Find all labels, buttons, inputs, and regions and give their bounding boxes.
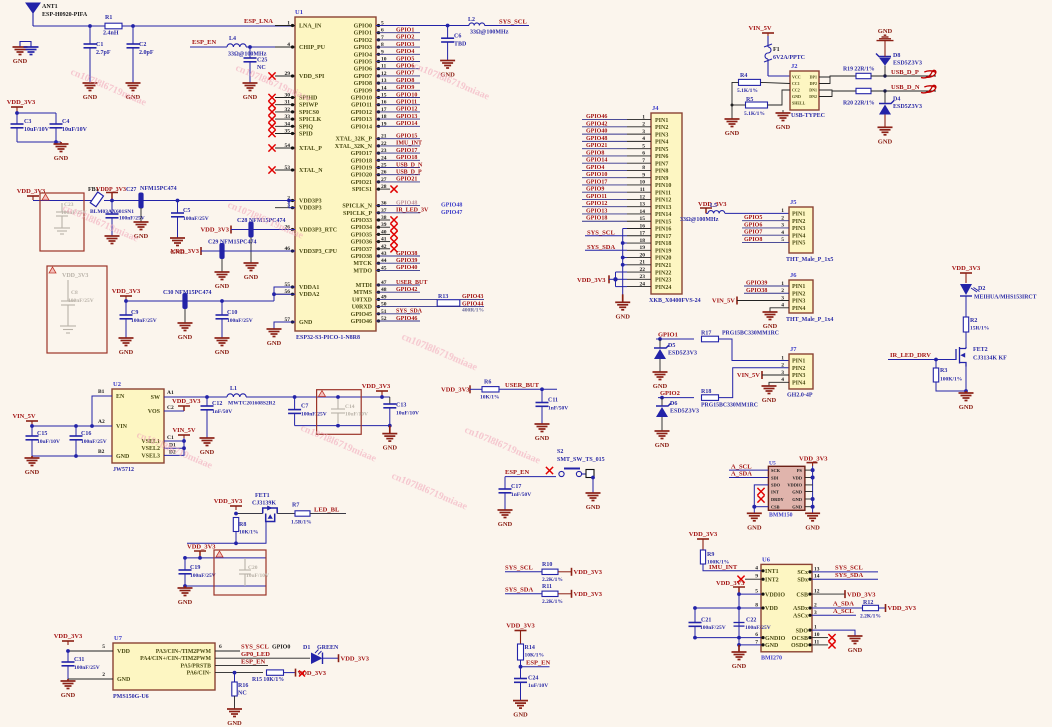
svg-text:SPICLK_P: SPICLK_P: [343, 211, 372, 217]
svg-text:C11: C11: [548, 398, 558, 404]
svg-text:U7: U7: [114, 635, 123, 642]
ground below C30: [184, 309, 186, 323]
capacitor C12: [206, 397, 208, 406]
svg-text:VDD_SPI: VDD_SPI: [299, 74, 325, 80]
junction C12: [205, 395, 209, 399]
svg-text:20: 20: [640, 252, 646, 258]
svg-text:2.4nH: 2.4nH: [103, 31, 119, 37]
svg-text:GPIO0: GPIO0: [354, 24, 372, 30]
wire R17 to J7 pin1: [719, 339, 790, 361]
svg-text:GPIO2: GPIO2: [660, 390, 680, 397]
svg-text:GPIO36: GPIO36: [351, 240, 372, 246]
svg-text:GPIO11: GPIO11: [586, 194, 607, 200]
svg-text:VDD: VDD: [792, 475, 802, 480]
svg-text:VDDA2: VDDA2: [299, 292, 319, 298]
power flag VDD_3V3 at D2: [960, 273, 972, 277]
capacitor C27: [111, 201, 113, 215]
net SYS_SCL at U6: [812, 571, 878, 573]
svg-text:C8: C8: [71, 290, 78, 296]
resistor R10: [542, 569, 558, 574]
svg-text:C4: C4: [62, 119, 69, 125]
capacitor C4: [55, 113, 57, 124]
svg-text:IMU_INT: IMU_INT: [396, 141, 422, 147]
wire ESP_EN at R14: [520, 660, 522, 679]
power flag VDD_3V3 at C28: [230, 226, 232, 234]
resistor R4: [739, 79, 761, 85]
ground below C10: [215, 338, 230, 346]
svg-text:GPIO17: GPIO17: [396, 148, 417, 154]
wire R2 to FET2: [965, 332, 967, 347]
LED D2 infrared: [965, 277, 967, 283]
svg-text:C29 NFM15PC474: C29 NFM15PC474: [208, 240, 257, 246]
ground below C1: [83, 83, 98, 91]
NTC box around C23: [40, 193, 84, 251]
svg-text:VDDA1: VDDA1: [299, 285, 319, 291]
svg-text:R9: R9: [707, 552, 714, 558]
svg-text:100nF/25V: 100nF/25V: [745, 625, 771, 631]
svg-text:GPIO2: GPIO2: [396, 35, 414, 41]
svg-text:PIN1: PIN1: [792, 359, 805, 365]
svg-text:C25: C25: [257, 58, 267, 64]
power flag VDD_3V3 at C3: [11, 107, 23, 112]
ground below C12: [200, 438, 215, 446]
unused-pin X at OSDO: [812, 644, 828, 646]
ground below C27: [105, 236, 120, 244]
power flag VDD_3V3 at R14: [515, 631, 527, 635]
svg-text:GPIO47: GPIO47: [441, 210, 462, 216]
svg-text:SPIQ: SPIQ: [299, 124, 313, 130]
svg-text:DN2: DN2: [809, 94, 817, 99]
svg-text:GND: GND: [25, 469, 40, 476]
svg-text:PIN10: PIN10: [655, 183, 671, 189]
svg-text:GPIO7: GPIO7: [744, 230, 762, 236]
unused-pin X at S2: [546, 467, 553, 474]
svg-text:S2: S2: [557, 449, 563, 455]
svg-text:VDD: VDD: [117, 649, 131, 655]
svg-text:PIN21: PIN21: [655, 263, 671, 269]
wire VDDA rail: [126, 300, 274, 302]
svg-text:GPIO18: GPIO18: [586, 216, 607, 222]
svg-text:R4: R4: [740, 73, 747, 79]
wire D2 to R2: [965, 296, 967, 317]
svg-text:GPIO9: GPIO9: [586, 187, 604, 193]
junction at C2: [131, 24, 135, 28]
svg-text:MWTC201608S2R2: MWTC201608S2R2: [228, 401, 276, 407]
svg-text:12: 12: [640, 194, 646, 200]
ground below D6: [655, 431, 670, 439]
svg-text:GPIO20: GPIO20: [351, 173, 372, 179]
svg-text:VDD_3V3: VDD_3V3: [799, 455, 828, 462]
antenna ANT1: [26, 3, 40, 26]
resistor R15: [267, 670, 284, 675]
svg-text:10: 10: [640, 180, 646, 186]
svg-text:U5: U5: [769, 460, 776, 466]
junction C11: [540, 387, 544, 391]
svg-text:IMU_INT: IMU_INT: [709, 564, 738, 571]
ground below C24: [513, 701, 528, 709]
U1 left pins: [275, 25, 295, 27]
output bottom rail: [295, 425, 390, 427]
capacitor C15: [31, 426, 33, 436]
capacitor C1: [89, 26, 91, 44]
svg-text:F1: F1: [773, 47, 780, 53]
svg-text:A1: A1: [167, 390, 174, 396]
svg-text:GPIO48: GPIO48: [586, 136, 607, 142]
svg-text:SMT_SW_TS_015: SMT_SW_TS_015: [557, 457, 605, 463]
power flag VIN_5V at J7: [761, 371, 763, 379]
ground below FET2: [959, 391, 974, 401]
svg-text:16: 16: [640, 223, 646, 229]
wire VIN rail: [32, 425, 112, 427]
svg-text:10uF/10V: 10uF/10V: [246, 573, 269, 579]
svg-text:SCK: SCK: [771, 468, 781, 473]
wire IR_LED_DRV to gate: [888, 359, 956, 361]
svg-text:GPIO14: GPIO14: [351, 124, 372, 130]
svg-text:GND: GND: [959, 404, 974, 411]
inductor L1: [227, 394, 246, 397]
svg-text:1: 1: [781, 355, 784, 361]
svg-text:PIN13: PIN13: [655, 205, 671, 211]
svg-text:A_SDA: A_SDA: [731, 470, 752, 477]
junction at C5: [176, 199, 180, 203]
svg-text:21: 21: [640, 260, 646, 266]
svg-text:VDD_3V3: VDD_3V3: [716, 580, 745, 587]
svg-text:GPIO48: GPIO48: [396, 200, 417, 206]
connector J5 body: [789, 207, 813, 253]
svg-text:GND: GND: [13, 58, 28, 65]
svg-text:GPIO46: GPIO46: [396, 316, 417, 322]
capacitor C11: [541, 389, 543, 402]
power flag VDD_3V3 R11: [571, 590, 573, 598]
svg-text:C17: C17: [511, 484, 521, 490]
svg-text:SPICLK_N: SPICLK_N: [342, 204, 372, 210]
svg-text:CSB: CSB: [771, 505, 780, 510]
ground below C5: [170, 238, 185, 246]
svg-text:DRDY: DRDY: [771, 497, 785, 502]
ground below C11: [535, 424, 550, 432]
wire R9 to INT1 / IMU_INT: [703, 564, 761, 571]
power flag VIN_5V at F1: [762, 33, 774, 36]
diode D5 ESD5Z3V3: [658, 337, 662, 341]
svg-text:PIN2: PIN2: [792, 219, 805, 225]
svg-text:ESP_EN: ESP_EN: [192, 39, 217, 46]
svg-text:D6: D6: [670, 401, 677, 407]
svg-text:MTCK: MTCK: [353, 261, 372, 267]
svg-text:10K/1%: 10K/1%: [480, 395, 500, 401]
power flag VDD_3V3 at C29: [200, 247, 202, 255]
svg-text:GND: GND: [178, 334, 193, 341]
svg-text:6V2A/PPTC: 6V2A/PPTC: [773, 55, 805, 61]
svg-text:GND: GND: [878, 138, 893, 145]
svg-text:R10: R10: [542, 562, 552, 568]
svg-text:GND: GND: [765, 643, 779, 649]
svg-text:VDD_3V3: VDD_3V3: [574, 591, 603, 598]
svg-text:GND: GND: [615, 313, 630, 320]
svg-text:PIN3: PIN3: [792, 226, 805, 232]
svg-text:DP1: DP1: [810, 75, 817, 80]
svg-text:GPIO6: GPIO6: [396, 64, 414, 70]
svg-text:6: 6: [219, 644, 222, 650]
U5 right rail: [812, 466, 814, 513]
resistor R18: [702, 395, 719, 401]
differential pair marker N: [921, 85, 936, 93]
ground below NFM filter: [140, 208, 142, 222]
svg-text:17: 17: [640, 231, 646, 237]
wire C19 top rail: [185, 557, 266, 559]
svg-text:C2: C2: [167, 405, 174, 411]
power flag VIN_5V: [26, 421, 38, 426]
svg-text:C31: C31: [74, 657, 84, 663]
svg-text:MTDO: MTDO: [353, 268, 372, 274]
svg-text:VDD_3V3: VDD_3V3: [952, 265, 981, 272]
svg-text:5.1K/1%: 5.1K/1%: [737, 88, 758, 94]
svg-text:1: 1: [781, 208, 784, 214]
IC U1 ESP32-S3-PICO-1-N8R8 body: [295, 17, 376, 331]
svg-text:GPIO17: GPIO17: [586, 179, 607, 185]
svg-text:GPIO21: GPIO21: [396, 177, 417, 183]
svg-text:D2: D2: [978, 286, 985, 292]
diode D6 ESD5Z3V3: [660, 396, 664, 400]
svg-text:33Ω@100MHz: 33Ω@100MHz: [470, 30, 509, 36]
wire R18 to J7 pin2: [719, 368, 790, 398]
svg-text:VDD3P3: VDD3P3: [299, 199, 322, 205]
svg-text:GPIO8: GPIO8: [744, 237, 762, 243]
capacitor C5: [177, 201, 179, 214]
wire GPIO44 pin 50: [376, 306, 484, 308]
svg-text:GND: GND: [513, 712, 528, 719]
svg-text:GPIO48: GPIO48: [441, 203, 462, 209]
svg-text:VDD3P3_CPU: VDD3P3_CPU: [299, 249, 338, 255]
wire GPIO0 to L2: [376, 25, 469, 27]
svg-text:GPIO39: GPIO39: [396, 258, 417, 264]
svg-text:VDD_3V3: VDD_3V3: [62, 273, 88, 279]
svg-text:VOS: VOS: [148, 409, 161, 415]
svg-text:8: 8: [642, 165, 645, 171]
svg-text:VDD_3V3: VDD_3V3: [847, 591, 876, 598]
svg-text:SPICS0: SPICS0: [299, 110, 319, 116]
svg-text:NFM15PC474: NFM15PC474: [140, 186, 177, 192]
svg-text:1nF/50V: 1nF/50V: [511, 492, 531, 498]
resistor R7: [277, 513, 295, 515]
svg-text:J7: J7: [790, 346, 797, 353]
svg-text:SYS_SCL: SYS_SCL: [835, 565, 863, 572]
svg-text:GPIO3: GPIO3: [354, 45, 372, 51]
svg-text:4: 4: [642, 136, 645, 142]
ground below C13: [382, 426, 397, 442]
svg-text:PIN6: PIN6: [655, 154, 668, 160]
svg-text:GPIO4: GPIO4: [396, 49, 414, 55]
net A_SDA at U6: [812, 607, 862, 609]
svg-text:100nF/25V: 100nF/25V: [74, 665, 100, 671]
resistor R1: [105, 23, 122, 29]
power flag VDD_3V3 at FET1: [230, 506, 242, 510]
svg-text:100nF/25V: 100nF/25V: [81, 439, 107, 445]
svg-text:JW5712: JW5712: [113, 467, 134, 473]
wire VOS: [164, 410, 184, 412]
svg-text:SYS_SDA: SYS_SDA: [835, 572, 863, 579]
svg-text:L2: L2: [468, 17, 475, 23]
wire U2 GND rail: [32, 455, 112, 457]
wire GPIO2 to R18: [658, 397, 694, 399]
svg-text:CC2: CC2: [792, 88, 800, 93]
svg-text:C21: C21: [701, 618, 711, 624]
svg-text:GPIO10: GPIO10: [396, 92, 417, 98]
svg-text:USB-TYPEC: USB-TYPEC: [791, 113, 825, 119]
svg-text:VDD_3V3: VDD_3V3: [441, 387, 470, 394]
svg-text:R19 22R/1%: R19 22R/1%: [843, 67, 875, 73]
svg-text:29: 29: [285, 71, 291, 77]
svg-text:CJ3134K KF: CJ3134K KF: [973, 356, 1007, 362]
wire VDD_3V3 to pin2: [33, 200, 93, 202]
svg-text:J4: J4: [652, 105, 659, 112]
svg-text:18: 18: [640, 238, 646, 244]
junction C7: [293, 395, 297, 399]
svg-text:VDD_3V3: VDD_3V3: [17, 188, 46, 195]
wire U1 GND pin: [274, 322, 295, 329]
ground below U1 GND pin: [267, 329, 282, 337]
ground below J2: [782, 110, 784, 113]
svg-text:VDD3P3: VDD3P3: [299, 206, 322, 212]
svg-text:PIN2: PIN2: [655, 125, 668, 131]
svg-text:VDDIO: VDDIO: [787, 483, 802, 488]
svg-text:J2: J2: [791, 63, 798, 70]
svg-text:R20 22R/1%: R20 22R/1%: [843, 101, 875, 107]
svg-text:GH2.0-4P: GH2.0-4P: [787, 393, 813, 399]
ground below R4 R5: [725, 119, 740, 127]
power flag VDD_3V3 at R12: [885, 604, 887, 612]
svg-text:GPIO37: GPIO37: [351, 247, 372, 253]
svg-text:SDx: SDx: [797, 577, 808, 583]
wire R4 R5 to ground: [732, 82, 739, 119]
svg-text:10uF/10V: 10uF/10V: [62, 127, 88, 133]
svg-text:GND: GND: [54, 155, 69, 162]
svg-text:CHIP_PU: CHIP_PU: [299, 45, 326, 51]
U7 GND pin wire: [68, 678, 113, 680]
svg-text:LED_BL: LED_BL: [314, 507, 340, 514]
wire output right: [380, 395, 384, 399]
capacitor C7: [294, 397, 296, 410]
svg-text:1nF/50V: 1nF/50V: [212, 409, 232, 415]
svg-text:MEIHUA/MHS153IRCT: MEIHUA/MHS153IRCT: [974, 295, 1037, 301]
svg-text:ESD5Z3V3: ESD5Z3V3: [893, 104, 922, 110]
svg-text:R16: R16: [238, 683, 248, 689]
svg-text:ESP_EN: ESP_EN: [505, 469, 530, 476]
svg-text:INT1: INT1: [765, 569, 779, 575]
svg-text:PIN2: PIN2: [792, 366, 805, 372]
U5 SDO CSB wires: [754, 485, 768, 513]
svg-text:3: 3: [642, 129, 645, 135]
svg-text:XTAL_32K_N: XTAL_32K_N: [335, 144, 373, 150]
svg-text:THT_Male_P_1x5: THT_Male_P_1x5: [786, 257, 833, 263]
svg-text:SHELL: SHELL: [792, 101, 806, 106]
svg-text:GPIO46: GPIO46: [351, 319, 372, 325]
svg-text:PIN11: PIN11: [655, 190, 671, 196]
capacitor C21: [694, 608, 696, 623]
wire ESP_EN to CHIP_PU: [190, 46, 227, 48]
power flag VIN_5V at J6: [736, 297, 738, 305]
svg-text:C7: C7: [301, 404, 308, 410]
svg-text:GPIO14: GPIO14: [586, 158, 607, 164]
U7 VDD pin wire: [68, 650, 113, 652]
svg-text:SYS_SCL: SYS_SCL: [505, 565, 533, 572]
ground below C17: [498, 510, 513, 518]
svg-text:100nF/25V: 100nF/25V: [131, 318, 157, 324]
junction at C25: [248, 45, 252, 49]
ground below C6: [440, 61, 455, 69]
wire SW output: [164, 396, 227, 398]
svg-text:PIN3: PIN3: [792, 299, 805, 305]
svg-text:PIN7: PIN7: [655, 161, 668, 167]
U1 right pin names and numbers: [377, 24, 380, 27]
junction C14 top: [336, 395, 340, 399]
svg-text:11: 11: [640, 187, 645, 193]
svg-text:GND: GND: [792, 94, 801, 99]
wire C3 C4 top: [16, 112, 18, 113]
svg-text:PIN1: PIN1: [792, 284, 805, 290]
ground below C9: [119, 338, 134, 346]
ground below D4: [884, 115, 886, 128]
svg-text:VIN: VIN: [116, 424, 128, 430]
svg-text:VDD_3V3: VDD_3V3: [577, 277, 606, 284]
svg-text:GPIO13: GPIO13: [396, 114, 417, 120]
svg-text:C24: C24: [528, 676, 538, 682]
svg-text:GPIO12: GPIO12: [586, 201, 607, 207]
inductor L4: [227, 44, 246, 47]
wire GND row: [739, 644, 761, 646]
svg-text:GND: GND: [848, 647, 863, 654]
svg-text:C20: C20: [248, 565, 258, 571]
watermarks: [61, 61, 542, 513]
svg-text:14: 14: [640, 209, 646, 215]
inductor L2: [469, 23, 485, 26]
svg-text:VIN_5V: VIN_5V: [172, 427, 195, 434]
power flag VDD_3V3 VDDA: [120, 296, 132, 301]
filter C29 NFM15PC474: [219, 243, 224, 259]
svg-text:10uF/10V: 10uF/10V: [24, 127, 50, 133]
svg-text:C13: C13: [396, 403, 406, 409]
wire GPIO1 to R17: [656, 338, 694, 340]
svg-text:VDD_3V3: VDD_3V3: [506, 623, 535, 630]
J7 pin4 ground: [769, 382, 789, 386]
svg-text:ESP32-S3-PICO-1-N8R8: ESP32-S3-PICO-1-N8R8: [296, 335, 360, 341]
svg-text:PIN5: PIN5: [792, 241, 805, 247]
svg-text:GPIO4: GPIO4: [586, 165, 604, 171]
svg-text:C2: C2: [139, 42, 146, 48]
svg-text:R11: R11: [542, 584, 552, 590]
IC J2 USB-TYPEC body: [790, 71, 819, 110]
svg-text:VDD_3V3: VDD_3V3: [200, 227, 229, 234]
svg-text:A_SDA: A_SDA: [833, 601, 854, 608]
svg-text:GND: GND: [792, 497, 802, 502]
svg-text:1.5R/1%: 1.5R/1%: [291, 520, 312, 526]
svg-text:GND: GND: [83, 94, 98, 101]
svg-text:9: 9: [642, 172, 645, 178]
svg-text:GPIO10: GPIO10: [586, 172, 607, 178]
wire LED_BL: [310, 513, 346, 515]
power flag VDD_3V3 at D1: [338, 654, 340, 662]
svg-text:IR_LED_3V: IR_LED_3V: [396, 208, 429, 214]
svg-text:GND: GND: [776, 124, 791, 131]
capacitor C20 (not fitted, grey): [239, 558, 251, 586]
svg-text:100K/1%: 100K/1%: [940, 377, 962, 383]
svg-text:GND: GND: [244, 274, 259, 281]
capacitor C16: [75, 426, 77, 436]
svg-text:USER_BUT: USER_BUT: [396, 280, 427, 286]
svg-text:R1: R1: [105, 15, 112, 21]
svg-text:J6: J6: [790, 272, 797, 279]
unused-pin X at OCSB: [812, 637, 828, 639]
svg-text:GND: GND: [227, 720, 242, 727]
